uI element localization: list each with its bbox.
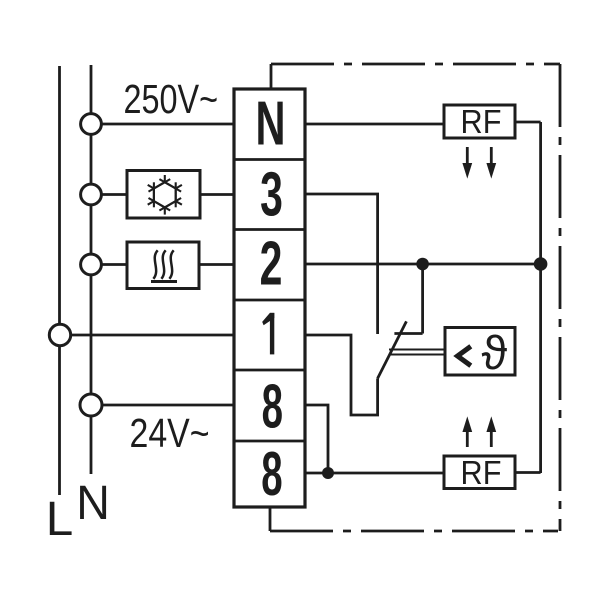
svg-text:2: 2: [260, 229, 283, 299]
svg-text:24V~: 24V~: [130, 410, 210, 456]
svg-text:L: L: [46, 493, 74, 546]
svg-text:N: N: [256, 89, 286, 158]
svg-text:250V~: 250V~: [124, 77, 219, 122]
svg-text:8: 8: [261, 439, 282, 509]
svg-text:ϑ: ϑ: [481, 326, 507, 379]
svg-text:RF: RF: [461, 454, 502, 491]
svg-text:N: N: [76, 476, 110, 530]
svg-text:RF: RF: [461, 103, 502, 140]
svg-text:3: 3: [260, 160, 283, 230]
svg-text:8: 8: [262, 371, 283, 441]
